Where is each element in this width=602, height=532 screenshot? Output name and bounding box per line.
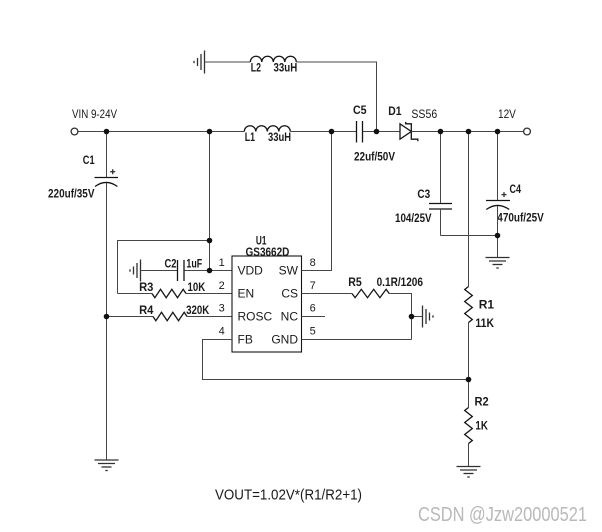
svg-text:11K: 11K bbox=[475, 316, 494, 330]
svg-text:L2: L2 bbox=[251, 61, 261, 75]
svg-text:SW: SW bbox=[279, 264, 299, 278]
diode D1 SS56 bbox=[400, 124, 411, 139]
svg-text:C5: C5 bbox=[353, 103, 367, 117]
svg-text:CS: CS bbox=[281, 287, 298, 301]
wire main rail left bbox=[78, 131, 244, 133]
svg-text:R5: R5 bbox=[348, 275, 362, 289]
svg-text:33uH: 33uH bbox=[268, 130, 291, 144]
capacitor C1 bbox=[106, 132, 108, 178]
wire L2 to corner bbox=[296, 62, 376, 132]
svg-text:470uf/25V: 470uf/25V bbox=[497, 210, 544, 224]
capacitor C4 bbox=[497, 132, 499, 201]
svg-text:C4: C4 bbox=[510, 182, 522, 196]
svg-text:ROSC: ROSC bbox=[238, 310, 273, 324]
capacitor C3 bbox=[440, 132, 442, 204]
inductor L1 bbox=[244, 126, 290, 132]
wire D1 to output bbox=[411, 131, 523, 133]
ground G4 (right of R5) bbox=[423, 306, 434, 328]
node VDD/C2 junction bbox=[207, 268, 213, 274]
wire L1 to C5 bbox=[290, 131, 356, 133]
wire CS to R5 bbox=[302, 293, 353, 295]
svg-text:220uf/35V: 220uf/35V bbox=[48, 187, 95, 201]
wire stub to ground G4 bbox=[412, 316, 423, 318]
ground G2 (left of L2) bbox=[194, 51, 205, 74]
svg-text:C3: C3 bbox=[417, 187, 430, 201]
inductor L2 bbox=[250, 56, 296, 62]
svg-text:33uH: 33uH bbox=[274, 61, 298, 75]
svg-text:22uf/50V: 22uf/50V bbox=[354, 149, 395, 163]
node L2 tap bbox=[374, 129, 380, 135]
wire C5 to D1 bbox=[363, 131, 400, 133]
svg-text:NC: NC bbox=[281, 310, 299, 324]
wire C3 bottom to C4 bottom bbox=[441, 235, 498, 237]
svg-text:C1: C1 bbox=[83, 153, 95, 167]
svg-text:R3: R3 bbox=[139, 280, 154, 294]
svg-text:SS56: SS56 bbox=[411, 107, 437, 121]
svg-text:1: 1 bbox=[219, 257, 225, 269]
wire R5 down to GND pin bbox=[389, 294, 412, 340]
capacitor C5 bbox=[356, 121, 358, 143]
svg-text:R4: R4 bbox=[139, 303, 154, 317]
svg-text:12V: 12V bbox=[498, 107, 516, 121]
wire SW to rail bbox=[302, 132, 332, 271]
svg-text:EN: EN bbox=[238, 287, 255, 301]
wire ground to L2 bbox=[205, 61, 251, 63]
op-amp U1 GS3662D box bbox=[232, 256, 302, 352]
ground G3 (C2) bbox=[130, 260, 141, 282]
svg-text:2: 2 bbox=[219, 280, 225, 292]
svg-text:1uF: 1uF bbox=[186, 257, 202, 271]
resistor R5 bbox=[352, 289, 389, 297]
node C4 tap bbox=[495, 129, 501, 135]
wire FB bbox=[203, 340, 469, 380]
resistor R3 bbox=[118, 293, 153, 295]
svg-text:VOUT=1.02V*(R1/R2+1): VOUT=1.02V*(R1/R2+1) bbox=[215, 487, 362, 504]
ground G6 (C4) bbox=[486, 258, 510, 269]
svg-text:10K: 10K bbox=[188, 280, 206, 294]
resistor R2 bbox=[465, 408, 473, 444]
svg-text:320K: 320K bbox=[186, 303, 209, 317]
svg-text:GS3662D: GS3662D bbox=[246, 245, 290, 259]
node R1 tap bbox=[466, 129, 472, 135]
wire ground to C2 bbox=[141, 270, 178, 272]
svg-text:VDD: VDD bbox=[238, 264, 264, 278]
resistor R4 bbox=[107, 316, 154, 318]
node VDD tap bbox=[207, 129, 213, 135]
wire C2 to VDD pin bbox=[185, 270, 233, 272]
wire C1 to ground bbox=[106, 183, 108, 460]
svg-text:8: 8 bbox=[310, 257, 316, 269]
wire NC stub bbox=[302, 316, 326, 318]
svg-text:5: 5 bbox=[310, 326, 316, 338]
node R5 ground junction bbox=[409, 314, 415, 320]
node R4 tap bbox=[104, 314, 110, 320]
svg-text:1K: 1K bbox=[475, 419, 488, 433]
svg-text:0.1R/1206: 0.1R/1206 bbox=[377, 275, 424, 289]
svg-text:4: 4 bbox=[219, 326, 225, 338]
svg-text:GND: GND bbox=[271, 333, 298, 347]
capacitor C2 bbox=[177, 260, 179, 281]
svg-text:VIN 9-24V: VIN 9-24V bbox=[72, 107, 117, 121]
svg-text:3: 3 bbox=[219, 303, 225, 315]
node loop junction bbox=[207, 238, 213, 244]
svg-text:C2: C2 bbox=[165, 257, 177, 271]
svg-text:L1: L1 bbox=[245, 130, 256, 144]
ground G1 (C1) bbox=[95, 460, 119, 471]
node FB divider junction bbox=[466, 377, 472, 383]
node C3 tap bbox=[438, 129, 444, 135]
svg-text:7: 7 bbox=[310, 280, 316, 292]
wire GND pin to R5 leg bbox=[302, 339, 412, 341]
svg-text:D1: D1 bbox=[388, 104, 402, 118]
ground G5 (R2) bbox=[457, 467, 481, 478]
wire VDD branch vertical bbox=[209, 132, 211, 271]
svg-text:R2: R2 bbox=[475, 395, 489, 409]
svg-text:FB: FB bbox=[238, 333, 253, 347]
node SW tap bbox=[329, 129, 335, 135]
node C1 tap bbox=[104, 129, 110, 135]
wire loop EN-to-VDD bbox=[118, 241, 210, 294]
resistor R1 branch bbox=[468, 132, 470, 287]
svg-text:R1: R1 bbox=[479, 298, 495, 312]
svg-text:CSDN @Jzw20000521: CSDN @Jzw20000521 bbox=[418, 504, 587, 526]
svg-text:104/25V: 104/25V bbox=[395, 211, 432, 225]
svg-text:6: 6 bbox=[310, 303, 316, 315]
node C4 bottom junction bbox=[495, 233, 501, 239]
